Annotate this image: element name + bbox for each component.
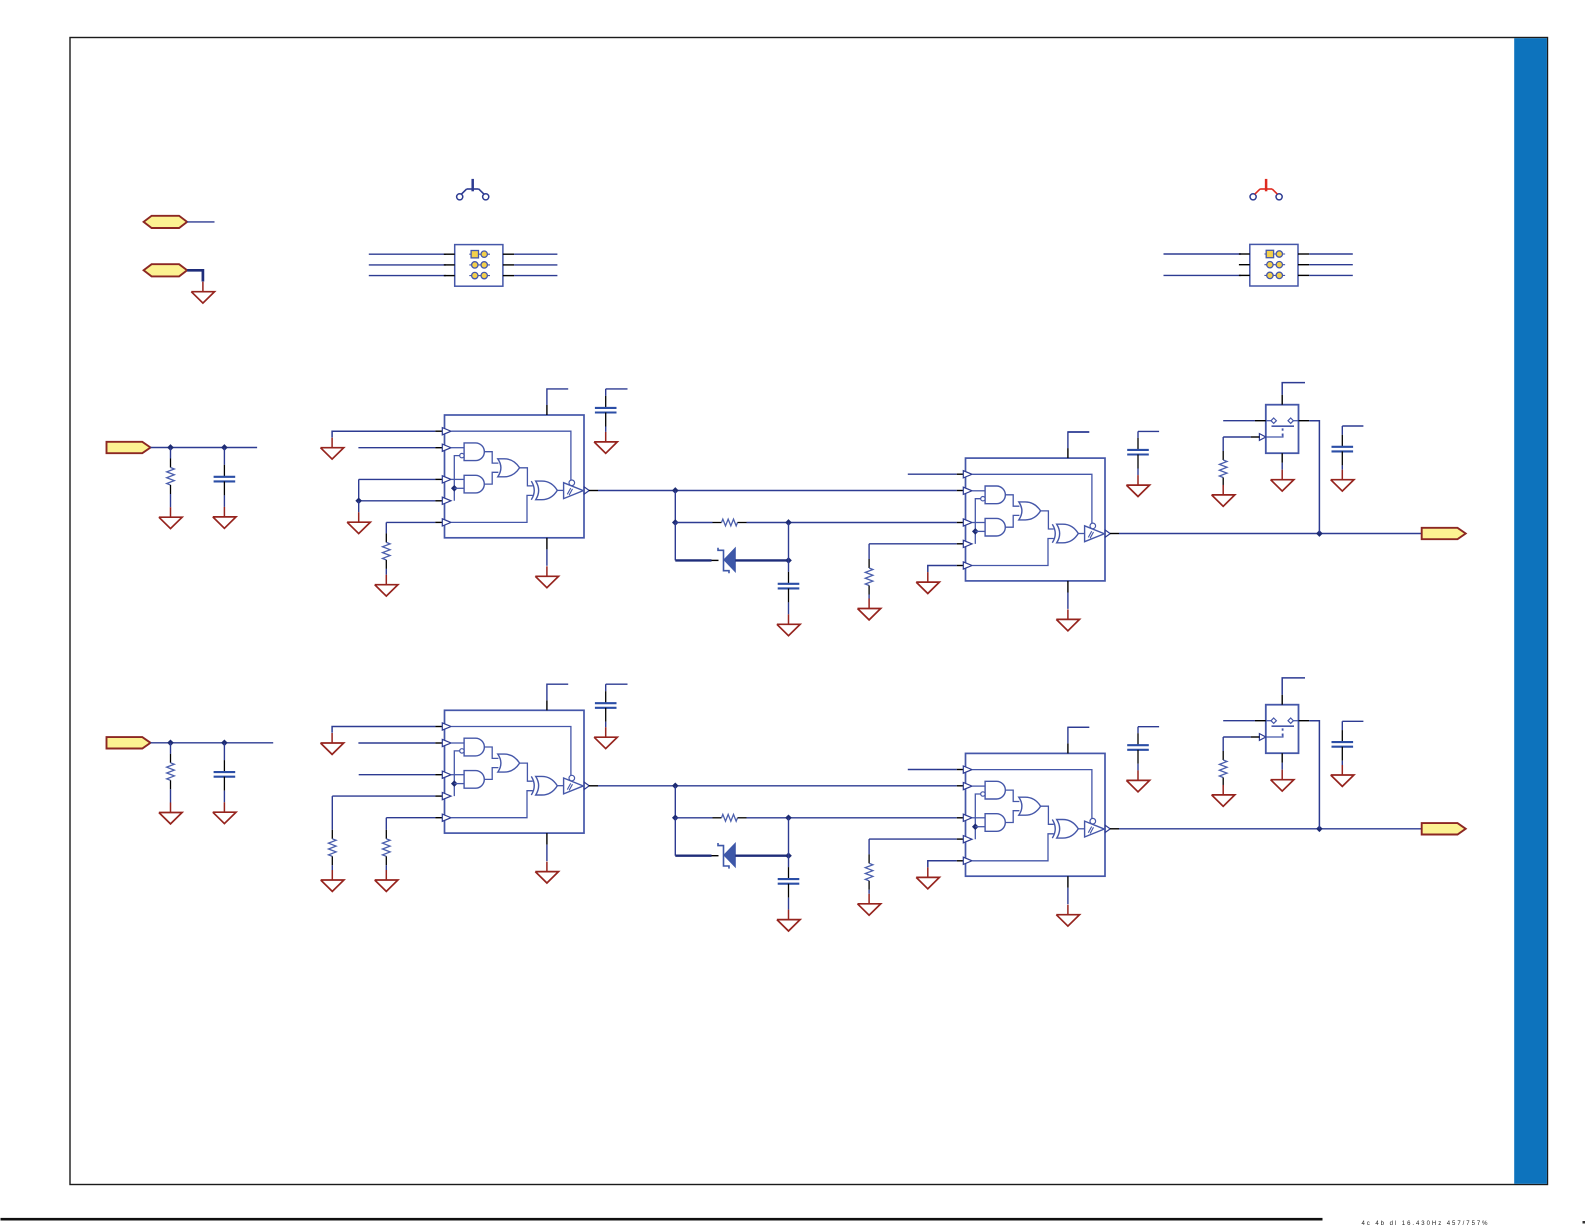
ground below R_ctl [1212,485,1235,506]
wire junction to ground [358,501,360,512]
wire VCC to C_sw1 [1138,430,1159,432]
zener diode D [675,548,788,574]
wire junction to capacitor [788,523,790,561]
junction [222,445,228,451]
VCC pin of switch [1282,678,1305,705]
wire to U in2 [358,742,443,744]
junction [672,520,678,526]
wire to J2 pin row 3 left [1164,274,1250,276]
resistor R_pd [865,839,873,894]
resistor R_ina [167,448,175,508]
zener diode D [675,843,788,869]
ground below R_pd [858,599,881,620]
connector J1 [455,245,503,287]
port IN [107,442,151,453]
resistor R_inb [167,743,175,803]
GND pin of U3 [546,833,548,861]
ground below C_f [777,910,800,931]
wire to U in3 [359,479,444,500]
ground under in3/in4 [347,512,370,533]
ground below C_in [213,507,236,528]
wire from J2 pin row 2 right [1298,264,1353,266]
gate IC U2 [963,458,1110,581]
capacitor C_byp [595,389,617,432]
blue side bar [1514,38,1547,1184]
VCC pin of U4 [1068,727,1089,753]
capacitor C_f [778,856,800,910]
bottom window edge line [1,1218,1323,1221]
ground on U in1 branch [321,733,344,754]
wire to zener branch [674,523,676,561]
wire from J1 pin row 3 right [503,275,558,277]
ground below R_ina [159,507,182,528]
wire to U in2 [358,447,443,449]
wire U output to U2 in2 [589,490,965,492]
wire VCC to C_byp [606,388,628,390]
junction [786,815,792,821]
resistor R_in5 [383,818,391,870]
capacitor C_f [778,560,800,614]
junction [222,740,228,746]
ground below U2 [1056,609,1079,630]
wire to U2 in1 [908,473,965,475]
wire to switch control [1223,736,1259,738]
ground below R_in4 [321,870,344,891]
ground below R_ctl [1212,785,1235,806]
junction [672,815,678,821]
solder jumper JP2 [1250,179,1282,200]
wire to U in1 with ground [332,431,444,437]
wire to U2 in5 with ground [928,566,965,573]
GND pin of U4 [1067,876,1069,904]
capacitor C_in [214,448,236,507]
junction [672,783,678,789]
wire VCC to C_sw2 [1342,425,1363,427]
analog switch SW2 [1259,705,1298,754]
wire to zener branch [674,818,676,856]
wire switch output to net [1299,421,1320,534]
resistor R_in5 [383,522,391,574]
VCC pin of U2 [1068,432,1089,458]
GND pin of switch [1281,753,1283,770]
wire to J1 pin row 3 left [369,275,455,277]
port OUT2 [1422,823,1466,834]
analog switch SW1 [1259,405,1298,454]
gate IC U3 [442,710,589,833]
port OUT [1422,528,1466,539]
junction [168,445,174,451]
wire junction to capacitor [788,818,790,856]
wire U2 output to output port [1110,533,1422,535]
capacitor C_sw1 [1127,431,1149,475]
ground below C_byp [594,432,617,453]
port P_B [144,264,188,276]
wire VCC to C_sw1 [1138,726,1159,728]
ground on U2 in5 branch [916,867,939,888]
GND pin of U1 [546,538,548,566]
wire from J2 pin row 3 right [1298,274,1353,276]
wire from J1 pin row 1 right [503,253,558,255]
wire to U2 in1 [908,769,965,771]
ground below C_f [777,614,800,635]
gate IC U4 [963,753,1110,876]
wire to U in5 [386,521,443,523]
resistor R_ctl [1219,737,1227,787]
resistor R_pd [865,544,873,599]
wire to U in4 [359,500,444,502]
wire from port P_A [187,221,214,223]
ground below U3 [535,862,558,883]
ground on U2 in5 branch [916,572,939,593]
wire to U in3 [359,774,444,776]
port P_A [144,216,188,228]
ground below U1 [535,566,558,587]
wire to U in5 [386,817,443,819]
wire down to series resistor net [674,786,676,818]
VCC pin of U1 [547,389,568,415]
capacitor C_sw2 [1332,721,1354,765]
junction [1317,826,1323,832]
ground below switch [1271,470,1294,491]
wire to U2 in4 [869,543,965,545]
wire from J2 pin row 1 right [1298,253,1353,255]
wire VCC to C_byp [606,683,628,685]
capacitor C_sw2 [1332,426,1354,470]
wire VCC to C_byp2 [1068,431,1089,433]
wire to J2 pin row 1 left [1164,253,1250,255]
wire to J1 pin row 1 left [369,253,455,255]
resistor R_ctl [1219,437,1227,487]
wire switch output to net [1299,721,1320,829]
connector J2 [1250,244,1298,286]
ground for port P_B [191,282,214,303]
GND pin of switch [1281,453,1283,470]
junction [356,498,362,504]
wire U output to U2 in2 [589,785,965,787]
series resistor R_s [675,519,964,526]
VCC pin of U3 [547,684,568,710]
ground below C_in [213,802,236,823]
port IN2 [107,737,151,748]
wire from port P_B to ground [187,270,203,281]
junction [168,740,174,746]
solder jumper JP1 [457,179,489,200]
wire VCC to C_byp2 [1068,726,1089,728]
ground below R_inb [159,803,182,824]
capacitor C_byp [595,684,617,727]
wire from input port [151,447,258,449]
series resistor R_s [675,814,964,821]
ground on U in1 branch [321,438,344,459]
wire to J2 pin row 2 left [1239,264,1250,266]
ground below switch [1271,770,1294,791]
VCC pin of switch [1282,383,1305,405]
resistor R_in4 [329,796,337,870]
GND pin of U2 [1067,581,1069,609]
wire to U2 in5 with ground [928,861,965,868]
capacitor C_sw1 [1127,727,1149,771]
junction [672,488,678,494]
ground below C_byp [594,727,617,748]
gate IC U1 [442,415,589,538]
wire U2 output to output port [1110,828,1422,830]
wire VCC to C_sw2 [1342,720,1363,722]
ground below C_sw2 [1331,765,1354,786]
junction [786,520,792,526]
wire to U in1 with ground [332,727,444,733]
wire from J1 pin row 2 right [503,264,558,266]
wire to switch input pin [1223,420,1266,422]
ground below U4 [1056,905,1079,926]
wire to switch control [1223,436,1259,438]
wire down to series resistor net [674,491,676,523]
wire to J1 pin row 2 left [369,264,455,266]
wire from input port [151,742,274,744]
junction [786,853,792,859]
ground below C_sw1 [1126,475,1149,496]
ground below R_pd [858,894,881,915]
ground below R_in5 [375,575,398,596]
junction [786,558,792,564]
wire to U2 in4 [869,838,965,840]
capacitor C_in [214,743,236,802]
ground below R_in5 [375,870,398,891]
ground below C_sw2 [1331,470,1354,491]
ground below C_sw1 [1126,770,1149,791]
wire to U in4 [332,795,443,797]
junction [1317,531,1323,537]
wire to switch input pin [1223,720,1266,722]
